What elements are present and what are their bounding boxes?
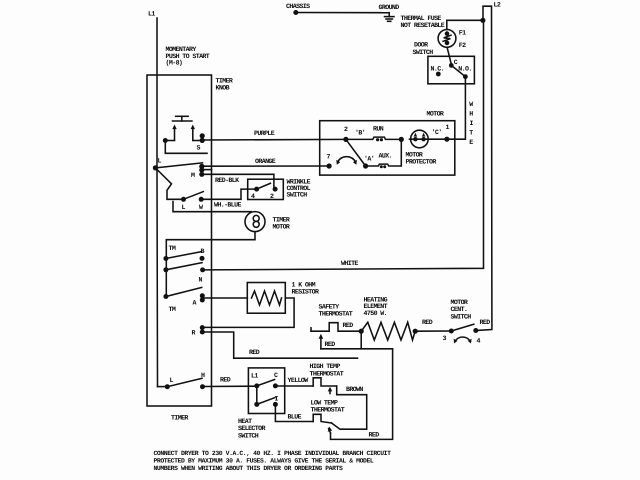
- svg-text:RED: RED: [480, 319, 491, 326]
- svg-text:L1: L1: [148, 11, 155, 18]
- svg-text:ELEMENT: ELEMENT: [364, 303, 388, 310]
- svg-text:7: 7: [327, 154, 331, 161]
- svg-text:THERMOSTAT: THERMOSTAT: [310, 371, 344, 378]
- wire wh-blue: [201, 189, 256, 199]
- svg-text:NUMBERS WHEN WRITING ABOUT THI: NUMBERS WHEN WRITING ABOUT THIS DRYER OR…: [154, 465, 343, 472]
- svg-text:2: 2: [344, 126, 348, 133]
- node S: [200, 133, 205, 138]
- heat selector lower contacts: [256, 386, 258, 405]
- blade L to M: [155, 163, 202, 168]
- svg-text:W: W: [199, 204, 203, 211]
- svg-text:C: C: [274, 372, 278, 379]
- svg-text:BLUE: BLUE: [288, 414, 302, 421]
- svg-text:LOW TEMP: LOW TEMP: [311, 400, 338, 407]
- svg-text:F2: F2: [459, 42, 466, 49]
- svg-text:CHASSIS: CHASSIS: [286, 3, 310, 10]
- svg-text:3: 3: [443, 335, 447, 342]
- red bus horizontal: [321, 348, 393, 350]
- svg-text:SWITCH: SWITCH: [451, 314, 472, 321]
- svg-text:E: E: [469, 139, 473, 146]
- svg-text:L1: L1: [251, 373, 258, 380]
- svg-text:DOOR: DOOR: [414, 42, 428, 49]
- svg-text:R: R: [192, 330, 196, 337]
- svg-text:WH.-BLUE: WH.-BLUE: [214, 202, 241, 209]
- svg-text:ORANGE: ORANGE: [255, 158, 276, 165]
- svg-text:1: 1: [446, 124, 450, 131]
- wire L1 vertical: [156, 18, 158, 168]
- svg-text:L: L: [182, 204, 186, 211]
- svg-text:TIMER: TIMER: [216, 78, 233, 85]
- resistor 1K box: [247, 283, 285, 314]
- wrinkle control switch: [248, 179, 284, 199]
- svg-text:I: I: [275, 396, 279, 403]
- svg-text:THERMOSTAT: THERMOSTAT: [319, 311, 353, 318]
- svg-text:RED-BLK: RED-BLK: [215, 177, 239, 184]
- svg-text:RED: RED: [249, 349, 260, 356]
- timer box: [147, 75, 212, 406]
- svg-text:MOTOR: MOTOR: [451, 299, 468, 306]
- blade TM to B: [166, 252, 202, 259]
- wire blue: [275, 404, 313, 421]
- svg-text:SWITCH: SWITCH: [238, 433, 259, 440]
- svg-text:N.C.: N.C.: [431, 66, 444, 73]
- svg-text:N: N: [199, 277, 203, 284]
- svg-text:S: S: [197, 145, 201, 152]
- door switch blade: [451, 65, 465, 76]
- svg-text:MOTOR: MOTOR: [427, 111, 444, 118]
- blade 3 to 4: [451, 324, 474, 331]
- junction heating element left: [359, 329, 364, 334]
- push start left contact: [163, 138, 168, 143]
- timer motor: [245, 212, 265, 232]
- svg-text:MOTOR: MOTOR: [406, 152, 423, 159]
- svg-text:1 K OHM: 1 K OHM: [292, 282, 316, 289]
- svg-text:MOMENTARY: MOMENTARY: [166, 46, 197, 53]
- blade L-W: [184, 192, 204, 200]
- svg-text:HIGH TEMP: HIGH TEMP: [310, 363, 341, 370]
- push start carriage bar: [165, 141, 207, 154]
- arc arrow 7-A: [338, 157, 356, 163]
- svg-text:CENT.: CENT.: [451, 306, 468, 313]
- svg-text:L2: L2: [494, 2, 501, 9]
- svg-text:H: H: [469, 111, 473, 118]
- svg-text:NOT RESETABLE: NOT RESETABLE: [401, 22, 445, 29]
- blade TM to A: [166, 287, 202, 296]
- wire A to resistor: [202, 297, 247, 299]
- wire resistor to R: [202, 298, 294, 327]
- svg-text:SAFETY: SAFETY: [319, 304, 340, 311]
- svg-text:CONNECT DRYER TO 230 V.A.C., 4: CONNECT DRYER TO 230 V.A.C., 40 HZ. I PH…: [154, 450, 392, 457]
- svg-text:(M-8): (M-8): [166, 60, 183, 67]
- svg-text:SWITCH: SWITCH: [413, 49, 434, 56]
- arc arrow 3-4: [455, 337, 470, 341]
- svg-text:L: L: [170, 377, 174, 384]
- svg-text:RED: RED: [220, 377, 231, 384]
- svg-text:AUX.: AUX.: [379, 153, 392, 160]
- svg-text:W: W: [469, 101, 473, 108]
- svg-text:TM: TM: [169, 306, 176, 313]
- svg-text:M: M: [191, 172, 195, 179]
- wire junction down to red bus: [360, 331, 362, 349]
- high temp actuator arrow: [329, 390, 331, 394]
- fuse F1 F2: [438, 30, 456, 48]
- resistor zigzag: [252, 291, 282, 305]
- svg-text:'A': 'A': [364, 156, 374, 163]
- svg-text:THERMOSTAT: THERMOSTAT: [311, 407, 345, 414]
- svg-text:MOTOR: MOTOR: [273, 224, 290, 231]
- svg-text:TIMER: TIMER: [273, 217, 290, 224]
- wire L2 vertical: [476, 6, 492, 330]
- motor protector: [411, 130, 429, 148]
- svg-text:4750 W.: 4750 W.: [364, 310, 388, 317]
- svg-text:T: T: [469, 130, 473, 137]
- svg-text:HEAT: HEAT: [238, 418, 252, 425]
- push button arrows: [174, 128, 176, 140]
- svg-text:SELECTOR: SELECTOR: [238, 425, 265, 432]
- wire R red run: [202, 332, 357, 358]
- svg-text:PROTECTED BY MAXIMUM 30 A. FUS: PROTECTED BY MAXIMUM 30 A. FUSES. ALWAYS…: [154, 458, 374, 465]
- wire chassis to ground: [296, 12, 389, 14]
- wire purple: [202, 138, 346, 141]
- wire brown: [332, 386, 367, 429]
- svg-text:KNOB: KNOB: [216, 85, 230, 92]
- push button symbol: [173, 116, 192, 121]
- wrinkle switch blade: [257, 183, 271, 189]
- svg-text:GROUND: GROUND: [379, 4, 400, 11]
- svg-text:N.O.: N.O.: [458, 66, 471, 73]
- wire yellow: [275, 385, 313, 387]
- svg-text:WHITE: WHITE: [341, 260, 358, 267]
- junction run/aux: [399, 137, 404, 142]
- wire white neutral: [203, 20, 484, 270]
- svg-text:RED: RED: [325, 341, 336, 348]
- blade 2 to A: [346, 139, 366, 166]
- svg-text:SWITCH: SWITCH: [287, 192, 308, 199]
- blade TM to N: [166, 263, 202, 270]
- svg-text:YELLOW: YELLOW: [288, 377, 309, 384]
- svg-text:A: A: [193, 300, 197, 307]
- blade L1 to C: [257, 380, 275, 386]
- wire white: door switch to motor terminal 1: [447, 77, 466, 140]
- wire red-blk: [202, 174, 274, 189]
- svg-text:TM: TM: [169, 245, 176, 252]
- svg-text:'C': 'C': [432, 129, 442, 136]
- svg-text:RED: RED: [369, 432, 380, 439]
- wire orange: [202, 165, 329, 167]
- svg-text:L: L: [158, 158, 162, 165]
- wire timer motor bottom to TM rail: [166, 232, 255, 297]
- wire red heating element to motor cent switch: [415, 330, 451, 332]
- svg-text:RED: RED: [422, 319, 433, 326]
- svg-text:I: I: [470, 120, 474, 127]
- svg-text:4: 4: [477, 338, 481, 345]
- svg-text:B: B: [201, 248, 205, 255]
- svg-text:PURPLE: PURPLE: [254, 130, 275, 137]
- svg-text:F1: F1: [459, 30, 466, 37]
- blade L-H: [167, 378, 202, 386]
- wire red bottom return: [331, 349, 393, 440]
- wire thermal fuse to L2: [447, 20, 483, 29]
- svg-text:RED: RED: [343, 322, 354, 329]
- step wire L common to L-W row: [155, 168, 183, 199]
- svg-text:PROTECTOR: PROTECTOR: [406, 159, 437, 166]
- svg-text:TIMER: TIMER: [171, 415, 188, 422]
- svg-text:RUN: RUN: [373, 126, 384, 133]
- safety thermostat actuator arrow: [320, 338, 322, 349]
- svg-text:C: C: [454, 59, 458, 66]
- junction white line to fuse: [480, 18, 485, 23]
- svg-text:BROWN: BROWN: [346, 386, 363, 393]
- svg-text:THERMAL FUSE: THERMAL FUSE: [401, 15, 442, 22]
- svg-text:'B': 'B': [355, 130, 365, 137]
- svg-text:RESISTOR: RESISTOR: [292, 289, 319, 296]
- wire red H to heat selector: [203, 385, 257, 387]
- heat selector switch: [248, 368, 284, 414]
- wire timer motor top to L-W bracket: [173, 202, 251, 212]
- blade to I: [257, 398, 275, 405]
